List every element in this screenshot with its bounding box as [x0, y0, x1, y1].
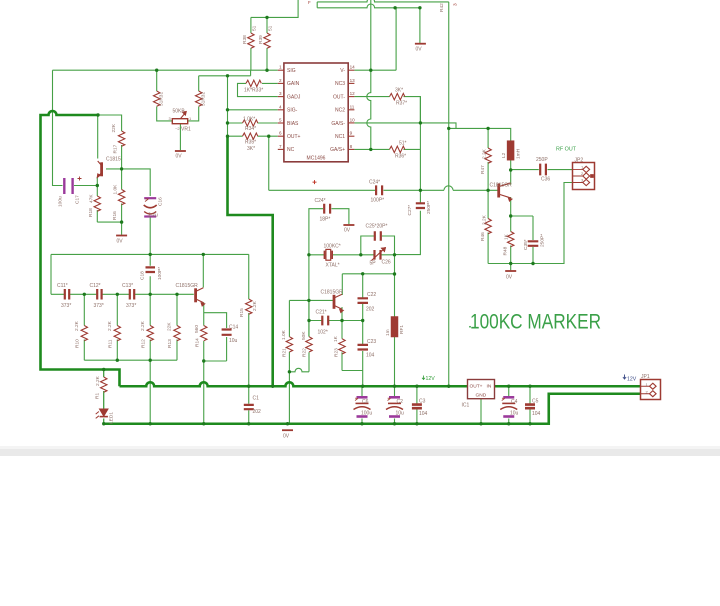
svg-text:NC3: NC3 — [335, 81, 345, 87]
svg-text:C36: C36 — [541, 177, 550, 183]
wire vertical node column x227.5 — [227, 76, 229, 136]
resistor R39 — [264, 33, 270, 48]
label 12V at rail — [422, 376, 435, 383]
svg-text:C3: C3 — [419, 399, 426, 405]
wire Q1 base row to C16 — [106, 169, 150, 255]
wire input top horizontal — [53, 69, 278, 71]
wire top feed to R38 R39 — [251, 0, 298, 17]
capacitor C12 373 — [97, 289, 101, 300]
wire node to C36 — [511, 169, 573, 171]
capacitor C1 202 — [244, 405, 254, 409]
op-amp U1 MC1496 box — [284, 63, 348, 162]
wire R11 column — [116, 294, 118, 360]
ground 0V under Q1 stage — [116, 235, 127, 237]
wire R14 ground drop — [203, 361, 205, 424]
svg-text:R34*: R34* — [245, 126, 256, 132]
svg-text:373*: 373* — [94, 303, 104, 309]
svg-text:2.2K: 2.2K — [95, 375, 101, 386]
pin 2 stub — [278, 82, 284, 84]
svg-text:SIG-: SIG- — [287, 108, 298, 114]
svg-text:C13*: C13* — [122, 283, 133, 289]
svg-text:OUT+: OUT+ — [287, 134, 301, 140]
svg-text:R23: R23 — [334, 348, 340, 357]
wire C27 column — [395, 190, 421, 254]
wire C24b right to ground — [332, 209, 349, 225]
svg-text:R13: R13 — [167, 339, 173, 348]
svg-text:560: 560 — [194, 325, 200, 333]
svg-text:R39: R39 — [258, 35, 264, 44]
wire R34 row — [228, 122, 278, 124]
wire R48 column — [510, 216, 512, 264]
resistor R10 — [81, 326, 87, 341]
svg-text:R1: R1 — [95, 393, 101, 399]
svg-text:RF OUT: RF OUT — [556, 147, 577, 153]
svg-text:IN: IN — [487, 384, 492, 390]
voltage regulator IC1 box — [468, 380, 495, 399]
svg-text:C22: C22 — [367, 292, 376, 298]
svg-text:104: 104 — [366, 353, 375, 359]
svg-text:1: 1 — [279, 65, 282, 70]
svg-text:100u: 100u — [361, 411, 372, 417]
svg-text:NC: NC — [287, 147, 295, 153]
wire R12 column — [149, 294, 151, 360]
svg-text:GAIN: GAIN — [287, 81, 300, 87]
svg-text:~2: ~2 — [175, 126, 180, 131]
resistor R11 — [114, 326, 120, 341]
svg-text:202: 202 — [366, 307, 375, 313]
svg-text:5: 5 — [279, 118, 282, 123]
wire R13 column — [176, 294, 178, 360]
wire C2 leads — [394, 386, 396, 424]
capacitor C22 202 — [358, 298, 369, 303]
svg-text:2.2K: 2.2K — [482, 214, 488, 225]
svg-text:MC1496: MC1496 — [307, 156, 326, 162]
svg-text:51: 51 — [268, 25, 274, 31]
node dots — [155, 69, 158, 72]
svg-text:51R32: 51R32 — [201, 92, 207, 106]
wire cap chain row — [51, 293, 194, 295]
svg-text:C26: C26 — [382, 260, 391, 266]
svg-text:1mH: 1mH — [516, 148, 522, 159]
svg-text:12V: 12V — [426, 376, 436, 382]
svg-text:1.0K: 1.0K — [113, 184, 119, 195]
svg-text:2.2u: 2.2u — [148, 213, 158, 219]
svg-text:0V: 0V — [283, 434, 290, 440]
pin 10 stub — [348, 122, 354, 124]
wire OUT+ drop x268.75 — [268, 136, 270, 190]
svg-text:R18: R18 — [88, 208, 94, 217]
svg-text:OUT+: OUT+ — [470, 384, 483, 390]
svg-text:2: 2 — [279, 78, 282, 83]
wire divider bottom rail — [84, 359, 177, 361]
resistor R31 — [154, 91, 160, 106]
resistor R36 — [390, 146, 405, 152]
wire pin12 to R37 — [354, 97, 420, 123]
connector JP2 — [573, 163, 595, 190]
svg-text:1K*R33*: 1K*R33* — [244, 87, 263, 93]
svg-text:C1815: C1815 — [106, 157, 121, 163]
capacitor C25 20P — [375, 231, 381, 240]
capacitor C18 100P — [146, 267, 156, 272]
transistor Q6 C1815GR — [499, 183, 512, 201]
resistor R17 — [118, 131, 124, 146]
electrolytic capacitor C6 100u — [354, 397, 371, 416]
IC pin numbers — [279, 65, 355, 149]
ground 0V under C24 18P — [343, 224, 354, 226]
wire divider ground drop — [149, 360, 151, 424]
wire vertical x370.8 with hops — [367, 0, 371, 149]
svg-text:51: 51 — [252, 25, 258, 31]
svg-text:C6: C6 — [362, 399, 369, 405]
label 12V at JP1 (supply symbol) — [623, 375, 637, 383]
svg-text:100KC*: 100KC* — [324, 244, 341, 250]
capacitor C24 100P (series in signal) — [376, 185, 382, 195]
wire Q1 bottom rail — [97, 221, 121, 223]
svg-text:4: 4 — [279, 104, 282, 109]
svg-text:12: 12 — [350, 91, 356, 96]
pin 5 stub — [278, 122, 284, 124]
svg-text:LED1: LED1 — [109, 412, 115, 424]
svg-text:R48: R48 — [503, 246, 509, 255]
svg-text:3K*: 3K* — [395, 88, 403, 94]
capacitor C11 373 — [65, 289, 69, 300]
pin 14 stub — [348, 69, 354, 71]
ground 0V RF stage — [505, 270, 516, 272]
node + polarity mark near IC output — [313, 180, 317, 184]
svg-text:R46: R46 — [480, 232, 486, 241]
wire Q1 collector column — [97, 115, 99, 159]
electrolytic capacitor C16 2.2u — [144, 198, 157, 216]
svg-text:2.2K: 2.2K — [482, 148, 488, 159]
svg-text:C14: C14 — [229, 325, 238, 331]
wire signal y190.3 — [269, 186, 499, 191]
wire R32 column — [188, 76, 199, 121]
svg-text:47K: 47K — [89, 194, 95, 203]
svg-text:GA/S-: GA/S- — [331, 121, 345, 127]
svg-text:BIAS: BIAS — [287, 121, 299, 127]
wire C1 column — [248, 386, 250, 424]
svg-text:RF1: RF1 — [399, 325, 405, 334]
wire RF bottom rail — [488, 183, 572, 264]
trimmer capacitor C26 5P — [372, 248, 386, 261]
svg-text:SIG: SIG — [287, 68, 296, 74]
svg-text:250P*: 250P* — [540, 234, 546, 247]
wire R16 column — [121, 169, 123, 222]
svg-text:100P*: 100P* — [371, 198, 385, 204]
capacitor C24 18P — [324, 204, 330, 214]
wire C17 right lead — [74, 185, 97, 187]
svg-text:R12: R12 — [141, 339, 147, 348]
svg-text:250P: 250P — [536, 157, 548, 163]
inductor RF1 — [391, 317, 397, 337]
resistor R35 — [243, 133, 258, 139]
svg-text:C11*: C11* — [57, 283, 68, 289]
wire top rail upper — [317, 0, 449, 8]
IC pin names — [287, 68, 345, 162]
wire y128.4 to L2 — [449, 128, 511, 141]
electrolytic capacitor C4 10u — [500, 397, 517, 416]
resistor R13 — [174, 326, 180, 341]
wire thick 12V rail left of regulator — [120, 382, 468, 386]
svg-text:R47: R47 — [480, 165, 486, 174]
svg-text:1.0K*: 1.0K* — [243, 116, 255, 122]
pin 6 stub — [278, 135, 284, 137]
svg-text:104: 104 — [419, 411, 428, 417]
wire thick 12V rail right of regulator to JP1 — [495, 385, 641, 388]
svg-text:18P*: 18P* — [320, 217, 331, 223]
pin 7 stub — [278, 148, 284, 150]
wire C4 leads — [508, 386, 510, 424]
resistor R34 — [243, 120, 258, 126]
svg-text:2.2K: 2.2K — [74, 320, 80, 331]
pin 11 stub — [348, 109, 354, 111]
wire C6 leads — [361, 386, 363, 424]
svg-text:202: 202 — [253, 409, 262, 415]
svg-text:C1: C1 — [253, 396, 260, 402]
svg-text:R14: R14 — [195, 338, 201, 347]
svg-text:C35*: C35* — [523, 239, 529, 250]
wire osc top rail — [51, 253, 249, 255]
svg-text:14: 14 — [350, 65, 356, 70]
capacitor C21 102 — [322, 316, 328, 326]
svg-text:7: 7 — [279, 144, 282, 149]
grey divider band — [0, 446, 720, 449]
svg-text:C23: C23 — [367, 339, 376, 345]
ground 0V under VR1 — [175, 150, 186, 152]
capacitor C14 10u — [222, 330, 232, 335]
svg-text:XTAL*: XTAL* — [326, 263, 340, 269]
svg-text:C25*20P*: C25*20P* — [366, 224, 388, 230]
svg-text:13: 13 — [350, 78, 356, 83]
svg-text:1K: 1K — [333, 335, 339, 342]
svg-text:VR1: VR1 — [181, 127, 191, 133]
svg-text:JP2: JP2 — [575, 158, 584, 164]
resistor R23 — [339, 339, 345, 354]
wire ground stem RF — [510, 264, 512, 271]
wire emitter to C22 link row — [342, 320, 363, 322]
svg-text:R21: R21 — [282, 348, 288, 357]
svg-text:2.2K: 2.2K — [140, 320, 146, 331]
svg-text:0V: 0V — [416, 47, 423, 53]
wire C18 column — [149, 254, 151, 294]
wire pin4 SIG- — [228, 109, 278, 111]
capacitor C27 250P — [416, 203, 425, 208]
wire R15 column — [248, 254, 250, 386]
resistor R14 560 — [201, 326, 207, 341]
svg-text:1K: 1K — [504, 233, 510, 240]
capacitor C36 250P — [540, 164, 546, 176]
svg-text:F: F — [308, 0, 311, 5]
wire R39 column — [266, 17, 268, 70]
wire C3 leads — [416, 386, 418, 424]
connector JP1 — [641, 380, 661, 400]
svg-text:L2: L2 — [501, 152, 507, 158]
pin 8 stub — [348, 148, 354, 150]
svg-text:C5: C5 — [532, 399, 539, 405]
crystal XTAL 100KC — [325, 249, 333, 260]
resistor R46 — [485, 219, 491, 234]
transistor Q1 C1815 — [97, 161, 101, 177]
svg-text:10: 10 — [350, 118, 356, 123]
LED LED1 — [96, 409, 108, 418]
wire C24b left column — [309, 209, 323, 255]
transistor Q3 C1815GR — [196, 288, 205, 306]
svg-text:10u: 10u — [229, 338, 238, 344]
svg-text:R11: R11 — [108, 339, 114, 348]
wire thick ground rail — [104, 394, 641, 424]
svg-text:R16: R16 — [112, 211, 118, 220]
electrolytic capacitor C17 100u — [64, 177, 81, 195]
wire Q1 emitter column — [96, 177, 98, 186]
pin 13 stub — [348, 82, 354, 84]
svg-text:22K: 22K — [167, 322, 173, 331]
wire ground stem Q1 — [121, 222, 123, 235]
svg-text:10u: 10u — [510, 411, 519, 417]
resistor R18 — [94, 196, 100, 211]
wire RF1 bottom — [394, 337, 396, 387]
wire R47 tap — [487, 128, 489, 148]
potentiometer VR1 50KB — [172, 119, 187, 124]
svg-text:C27*: C27* — [407, 205, 413, 216]
ground 0V top near IC — [415, 43, 426, 45]
svg-text:C21*: C21* — [316, 310, 327, 316]
svg-text:10u: 10u — [396, 411, 405, 417]
svg-text:R10: R10 — [75, 339, 81, 348]
wire pin10 row — [354, 123, 456, 128]
svg-text:0V: 0V — [506, 275, 513, 281]
capacitor C13 373 — [130, 289, 134, 300]
svg-text:5P: 5P — [370, 261, 377, 267]
capacitor C3 104 — [412, 405, 422, 409]
pin 4 stub — [278, 109, 284, 111]
svg-text:C1815GR: C1815GR — [176, 283, 199, 289]
pin 9 stub — [348, 135, 354, 137]
svg-text:C17: C17 — [75, 195, 81, 204]
pin 12 stub — [348, 96, 354, 98]
svg-text:0V: 0V — [117, 239, 124, 245]
pin 1 stub — [278, 69, 284, 71]
wire R22 column top — [308, 300, 310, 336]
svg-text:R37*: R37* — [396, 101, 407, 107]
wire R35 row — [228, 135, 278, 137]
svg-text:11: 11 — [350, 104, 355, 109]
wire R38 column — [250, 17, 252, 70]
transistor Q5 C1815GR — [334, 294, 343, 312]
wire C22 C23 column — [362, 274, 364, 371]
wire C14 parallel box — [204, 313, 227, 361]
resistor R32 — [196, 91, 202, 106]
svg-text:100KC MARKER: 100KC MARKER — [470, 311, 601, 334]
wire Q6 collector — [510, 170, 512, 185]
wire R33 gain loop — [238, 83, 278, 96]
svg-text:51R31: 51R31 — [159, 92, 165, 106]
wire R46 column — [487, 190, 489, 263]
svg-text:NC2: NC2 — [335, 108, 345, 114]
wire pin8 R36 row — [354, 148, 420, 150]
wire Q6 emitter node — [511, 197, 533, 264]
wire regulator GND drop — [480, 399, 482, 424]
svg-text:R15: R15 — [239, 308, 245, 317]
electrolytic capacitor C2 10u — [386, 397, 403, 416]
svg-text:C24*: C24* — [315, 198, 326, 204]
svg-text:0V: 0V — [344, 228, 351, 234]
wire R1 LED column — [103, 370, 105, 424]
wire thick left feed from Q1 collector node — [41, 111, 120, 386]
resistor R33 — [246, 80, 261, 86]
svg-text:100P*: 100P* — [157, 267, 163, 280]
svg-text:3: 3 — [453, 3, 459, 6]
svg-text:C2: C2 — [397, 399, 404, 405]
wire C5 leads — [529, 386, 531, 424]
svg-text:C18: C18 — [140, 271, 146, 280]
svg-text:100u: 100u — [58, 196, 64, 207]
wire y273.8 row — [342, 273, 394, 275]
svg-text:373*: 373* — [61, 303, 71, 309]
svg-text:8: 8 — [350, 144, 353, 149]
svg-text:NC1: NC1 — [335, 134, 345, 140]
wire R18 column — [96, 186, 98, 223]
wire x308.9 down to Q5 base row — [308, 255, 310, 337]
svg-text:1m: 1m — [385, 329, 391, 336]
wire XTAL node row — [309, 254, 361, 256]
wire R10 column — [83, 294, 85, 360]
svg-text:102*: 102* — [318, 330, 328, 336]
wire Q3 emitter R14 column — [203, 303, 205, 362]
resistor R12 — [147, 326, 153, 341]
svg-text:R17: R17 — [113, 144, 119, 153]
svg-text:51*: 51* — [399, 140, 407, 146]
wire osc left edge — [50, 254, 52, 294]
wire Q5 collector — [341, 274, 343, 295]
svg-text:50KB: 50KB — [173, 109, 186, 115]
wire VR1 wiper to ground — [179, 124, 181, 150]
svg-text:3: 3 — [279, 91, 282, 96]
wire R21 column — [288, 300, 290, 371]
wire C25 trimmer parallel box — [361, 236, 395, 255]
resistor R22 — [306, 337, 312, 352]
svg-text:GND: GND — [476, 393, 487, 399]
svg-text:R38: R38 — [242, 35, 248, 44]
pin 3 stub — [278, 96, 284, 98]
svg-text:JP1: JP1 — [641, 374, 650, 380]
wire Q3 collector — [202, 254, 204, 287]
capacitor C23 104 — [358, 345, 369, 350]
wire C21 leads — [309, 320, 342, 322]
svg-text:2.2K: 2.2K — [107, 320, 113, 331]
svg-text:OUT-: OUT- — [333, 94, 345, 100]
svg-text:12V: 12V — [627, 377, 637, 383]
label IC1 texts — [470, 384, 492, 399]
svg-text:104: 104 — [532, 411, 541, 417]
resistor R16 — [118, 190, 124, 205]
resistor R21 — [286, 337, 292, 352]
svg-text:6: 6 — [279, 131, 282, 136]
resistor R48 — [508, 232, 514, 247]
svg-text:C1815GR: C1815GR — [490, 183, 513, 189]
svg-text:IC1: IC1 — [462, 403, 470, 409]
wire bias column x420.4 — [419, 97, 421, 191]
wire R47 bottom to base — [487, 162, 489, 190]
wire Q5 emitter to R23 — [341, 307, 343, 339]
svg-text:9: 9 — [350, 131, 353, 136]
svg-text:3K*: 3K* — [247, 146, 255, 152]
svg-text:GADJ: GADJ — [287, 94, 301, 100]
svg-text:C12*: C12* — [90, 283, 101, 289]
resistor R37 — [390, 93, 405, 99]
wire long vertical x448.75 — [448, 2, 450, 386]
svg-text:GA/S+: GA/S+ — [330, 147, 345, 153]
svg-text:250P*: 250P* — [426, 201, 432, 214]
